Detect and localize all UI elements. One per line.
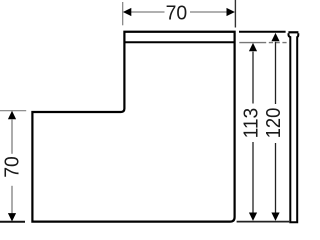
svg-text:70: 70 [166, 1, 188, 24]
svg-text:70: 70 [0, 156, 23, 178]
svg-text:120: 120 [262, 108, 285, 139]
svg-text:113: 113 [239, 108, 262, 139]
